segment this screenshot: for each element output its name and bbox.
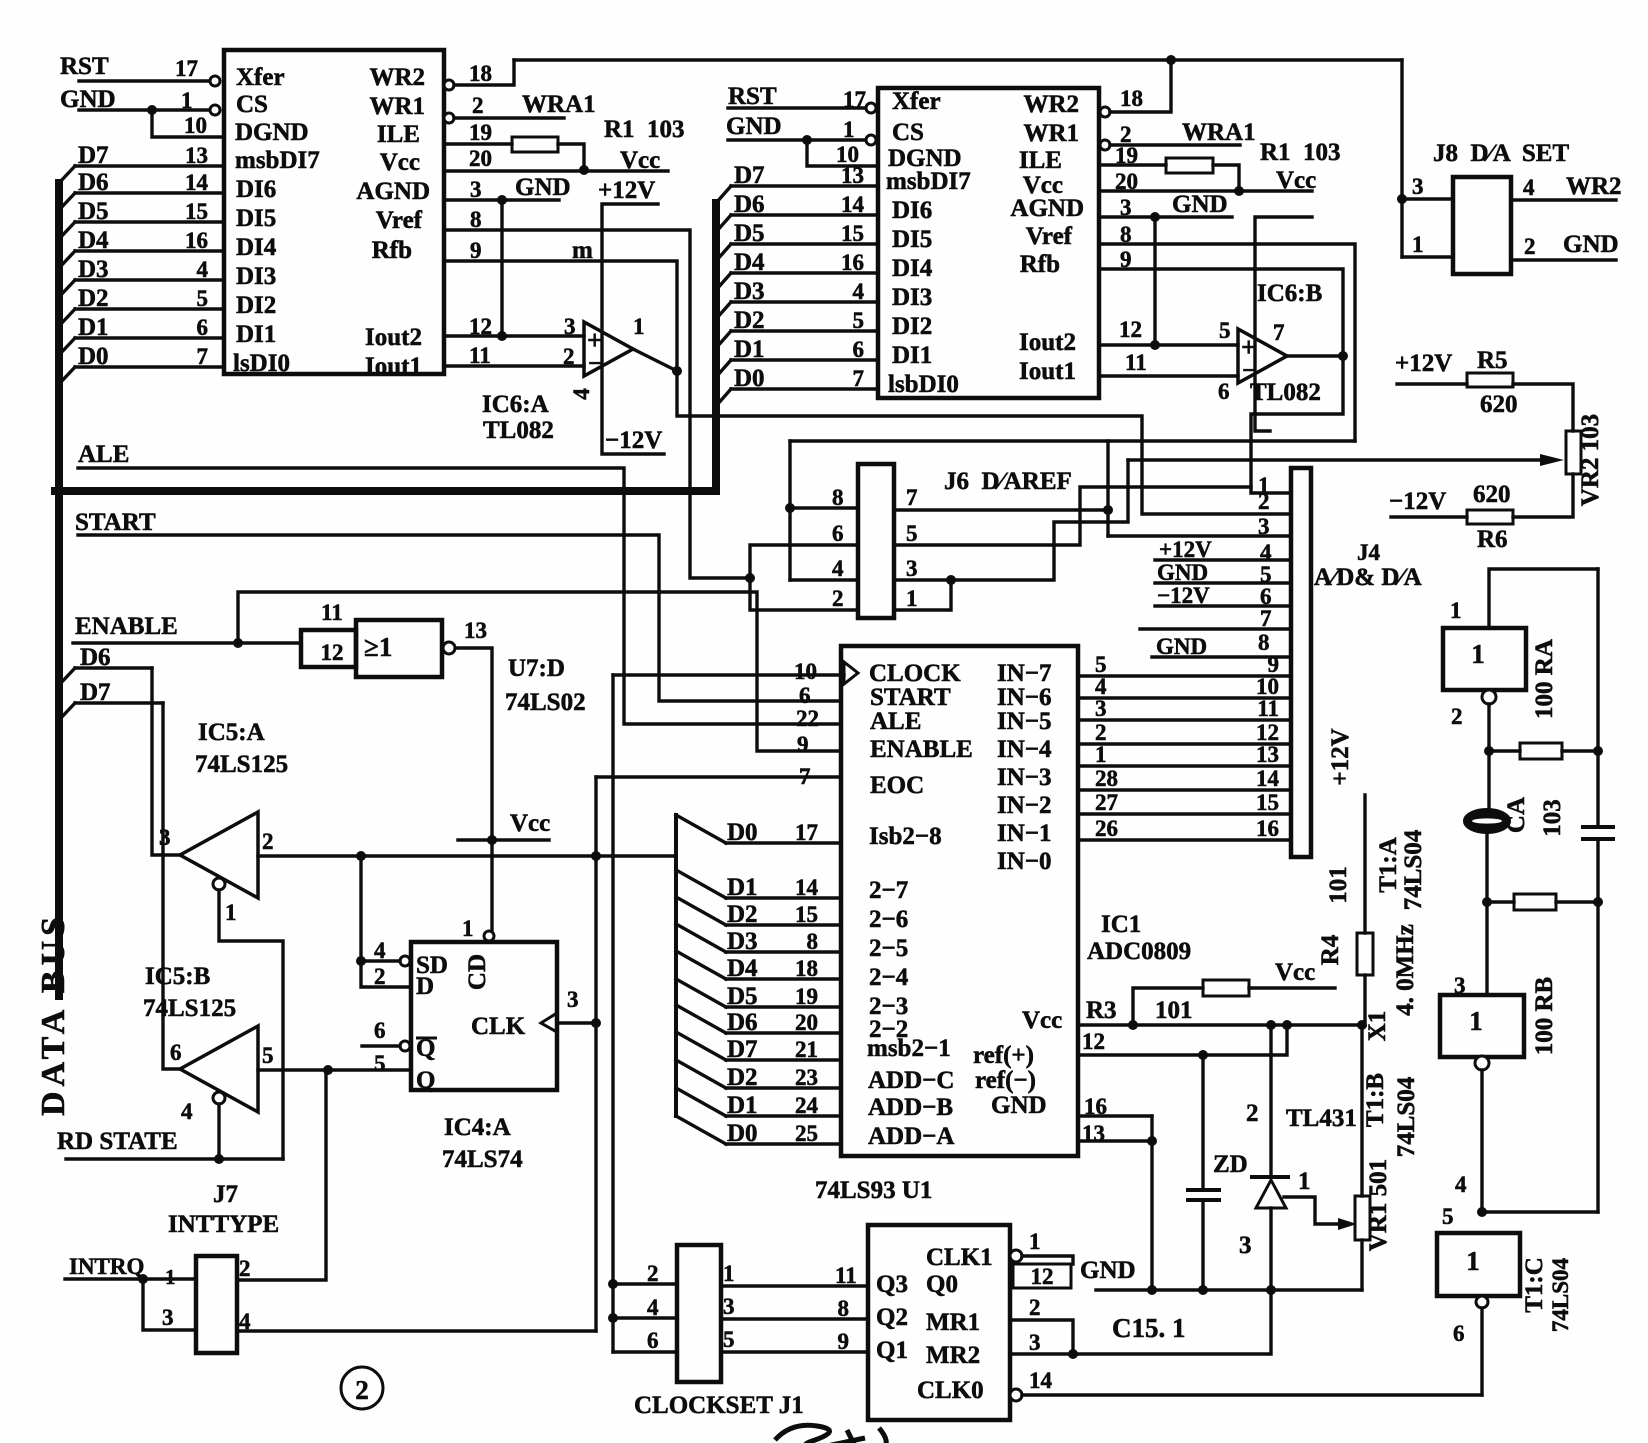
junction GND2/DGND2 <box>802 135 812 145</box>
pin circle Xfer 17 <box>210 76 220 86</box>
junction RB/rail <box>1593 897 1603 907</box>
wire TL431 anode to ground rail <box>1269 1208 1272 1290</box>
svg-text:620: 620 <box>1480 391 1518 418</box>
svg-text:7: 7 <box>799 764 811 789</box>
wire pins 16/13 down to ground rail <box>1150 1116 1153 1290</box>
wire D1 to ADC pin 14 <box>726 896 841 899</box>
svg-text:2: 2 <box>563 344 575 369</box>
EOC net vertical V1 <box>594 777 597 1331</box>
svg-text:ADD−C: ADD−C <box>868 1067 954 1094</box>
svg-text:X1: X1 <box>1364 1011 1391 1042</box>
wire J1 pin 2 to clock net <box>613 1282 677 1285</box>
wire D1 to DAC1 pin 6 <box>75 336 224 339</box>
wire bottom feedback to rail <box>1482 1210 1598 1213</box>
svg-text:12: 12 <box>1119 317 1142 342</box>
bubble U1 CLK0 pin 14 <box>1010 1389 1022 1401</box>
junction EOC/IC5A input <box>591 851 601 861</box>
svg-text:IN−5: IN−5 <box>997 708 1052 735</box>
wire D3 to DAC1 pin 4 <box>75 278 224 281</box>
wire IC6:B output <box>1287 354 1343 357</box>
svg-text:6: 6 <box>374 1018 386 1043</box>
svg-text:14: 14 <box>841 192 865 217</box>
wire D5 to ADC pin 19 <box>726 1005 841 1008</box>
svg-text:msb2−1: msb2−1 <box>867 1035 951 1062</box>
wire ILE pin 19 to resistor R1 <box>444 142 512 145</box>
svg-text:CLK1: CLK1 <box>926 1244 993 1271</box>
svg-text:T1:A: T1:A <box>1375 837 1402 893</box>
bus stub diagonal D3 (ADC) <box>676 924 726 952</box>
wire ADC GND pin 16 <box>1078 1114 1152 1117</box>
junction R3/Vcc rail <box>1128 1020 1138 1030</box>
wire Vcc pin 20 DAC2 <box>1099 189 1312 192</box>
svg-text:2: 2 <box>647 1261 659 1286</box>
bus stub diagonal D1 (DAC2) <box>716 360 731 377</box>
svg-text:8: 8 <box>470 207 482 232</box>
wire D pin 2 tie <box>361 961 411 987</box>
svg-text:2: 2 <box>239 1256 251 1281</box>
wire J1 pin 4 to clock net <box>613 1316 677 1319</box>
svg-text:GND: GND <box>515 174 571 201</box>
junction RB tap <box>1482 897 1492 907</box>
svg-text:D2: D2 <box>727 1064 758 1091</box>
svg-text:DI4: DI4 <box>236 234 277 261</box>
bubble IC5:A enable pin 1 <box>213 878 225 890</box>
svg-text:CD: CD <box>464 954 491 990</box>
svg-text:4: 4 <box>181 1099 193 1124</box>
svg-text:15: 15 <box>795 902 818 927</box>
wire J6 pin 3 <box>894 578 951 581</box>
bus stub diagonal D7 (ADC) <box>676 1032 726 1060</box>
svg-text:1: 1 <box>225 900 237 925</box>
wire D7 to DAC1 pin 13 <box>75 164 224 167</box>
svg-text:24: 24 <box>795 1093 819 1118</box>
junction SD/D tie <box>356 956 366 966</box>
wire ZD to ground rail <box>1201 1200 1204 1290</box>
junction top rail DAC2 <box>1166 55 1176 65</box>
svg-text:DI3: DI3 <box>892 284 932 311</box>
svg-text:4: 4 <box>832 556 844 581</box>
wire RST2 to Xfer pin 17 <box>728 106 864 109</box>
svg-text:12: 12 <box>1082 1029 1105 1054</box>
inverter T1:A body <box>1443 628 1526 690</box>
svg-text:5: 5 <box>1442 1204 1454 1229</box>
wire ILE pin 19 DAC2 to resistor R1 <box>1099 163 1166 166</box>
bus stub diagonal D2 (DAC1) <box>59 309 75 326</box>
junction TL431/Vcc rail <box>1266 1020 1276 1030</box>
svg-text:DI2: DI2 <box>892 313 932 340</box>
wire D2 to ADC pin 15 <box>726 923 841 926</box>
bubble T1:A output pin 2 <box>1482 690 1496 704</box>
svg-text:19: 19 <box>795 984 818 1009</box>
wire J6 pin 6 / pin 2 tie (from DAC1 Vref) <box>750 545 858 610</box>
svg-text:9: 9 <box>838 1329 850 1354</box>
svg-text:D1: D1 <box>734 336 765 363</box>
svg-text:74LS04: 74LS04 <box>1400 829 1427 910</box>
crystal CA body <box>1464 809 1510 833</box>
svg-text:17: 17 <box>175 56 198 81</box>
wire ADC EOC pin 7 to V1 <box>596 775 841 778</box>
svg-text:D5: D5 <box>727 983 758 1010</box>
svg-text:10: 10 <box>184 113 207 138</box>
wire SD pin 4 <box>361 959 400 962</box>
svg-text:103: 103 <box>1539 799 1566 837</box>
svg-text:Vcc: Vcc <box>1022 1007 1062 1034</box>
svg-text:WRA1: WRA1 <box>1182 119 1256 146</box>
VR1 wiper arrow <box>1338 1218 1357 1230</box>
svg-text:Iout2: Iout2 <box>365 324 422 351</box>
svg-text:4: 4 <box>374 938 386 963</box>
wire ENABLE up-and-over to ADC pin 9 <box>238 592 841 751</box>
resistor RB 100 <box>1514 894 1556 910</box>
buffer IC5:A triangle <box>180 812 258 898</box>
svg-text:1: 1 <box>906 586 918 611</box>
bus stub diagonal D5 (ADC) <box>676 979 726 1007</box>
svg-text:D5: D5 <box>78 198 109 225</box>
svg-text:RD STATE: RD STATE <box>57 1128 178 1155</box>
svg-text:4: 4 <box>647 1295 659 1320</box>
svg-text:ENABLE: ENABLE <box>75 613 178 640</box>
svg-text:8: 8 <box>1120 222 1132 247</box>
svg-text:2−5: 2−5 <box>869 935 908 962</box>
svg-text:IN−4: IN−4 <box>997 736 1052 763</box>
capacitor ZD top plate <box>1188 1188 1219 1192</box>
feedback rail right <box>1596 569 1599 827</box>
svg-text:ILE: ILE <box>1019 147 1062 174</box>
zener TL431 triangle <box>1256 1180 1286 1208</box>
svg-text:CLOCKSET J1: CLOCKSET J1 <box>634 1392 804 1419</box>
capacitor in rail top plate <box>1583 825 1613 829</box>
svg-text:3: 3 <box>723 1294 735 1319</box>
wire J1 pin 6 to clock net <box>613 1350 677 1353</box>
wire U7:D output to IC4 CD pin 1 <box>456 648 492 930</box>
svg-text:A∕D& D∕A: A∕D& D∕A <box>1314 564 1422 591</box>
svg-text:3: 3 <box>1029 1330 1041 1355</box>
wire IC5:A input pin 2 line <box>258 854 676 857</box>
junction RD STATE <box>214 1154 224 1164</box>
svg-text:9: 9 <box>470 238 482 263</box>
wire RST to Xfer pin 17 <box>79 79 208 82</box>
bus stub diagonal D7 (buffer) <box>59 703 75 720</box>
svg-text:R1 103: R1 103 <box>604 116 685 143</box>
svg-text:DI5: DI5 <box>892 226 932 253</box>
svg-text:1: 1 <box>1029 1229 1041 1254</box>
wire AGND pin 3 / GND label <box>444 198 559 201</box>
svg-text:2−7: 2−7 <box>869 877 908 904</box>
svg-text:3: 3 <box>1120 195 1132 220</box>
bus stub diagonal D6 (DAC2) <box>716 215 731 232</box>
svg-text:≥1: ≥1 <box>364 632 392 662</box>
wire Vref pin 8 DAC2 to J6 ref rail <box>1099 244 1355 441</box>
svg-text:D3: D3 <box>78 256 109 283</box>
svg-text:1: 1 <box>165 1265 176 1289</box>
wire +12V to R5 <box>1397 382 1467 385</box>
svg-text:WR1: WR1 <box>1023 120 1079 147</box>
svg-text:1: 1 <box>1095 742 1107 767</box>
inverter T1:C body <box>1437 1233 1520 1296</box>
svg-text:MR2: MR2 <box>926 1342 980 1369</box>
wire ZD to ref+ line <box>1201 1055 1204 1190</box>
svg-text:Rfb: Rfb <box>1020 251 1060 278</box>
svg-text:1: 1 <box>1298 1168 1311 1195</box>
svg-text:4: 4 <box>1523 175 1535 200</box>
wire R5 to VR2 top <box>1513 384 1573 431</box>
svg-text:74LS02: 74LS02 <box>505 689 586 716</box>
junction J6 pin 8 <box>785 503 795 513</box>
svg-text:D3: D3 <box>734 278 765 305</box>
svg-text:msbDI7: msbDI7 <box>886 168 971 195</box>
wire AGND down to Iout2 <box>500 200 503 336</box>
svg-text:3: 3 <box>567 987 579 1012</box>
junction IC6:A output <box>672 366 682 376</box>
pin circle CS 1 <box>210 105 220 115</box>
bus stub diagonal D0 (ADC) <box>676 1116 726 1144</box>
svg-text:D4: D4 <box>734 249 765 276</box>
junction RA tap <box>1484 746 1494 756</box>
op-amp IC6:B triangle <box>1238 329 1287 383</box>
svg-text:−12V: −12V <box>1157 583 1210 608</box>
svg-text:GND: GND <box>726 113 782 140</box>
svg-text:74LS74: 74LS74 <box>442 1146 523 1173</box>
svg-text:25: 25 <box>795 1121 818 1146</box>
wire T1:B output down to rail <box>1480 1070 1483 1212</box>
svg-text:Rfb: Rfb <box>372 237 412 264</box>
svg-text:18: 18 <box>1120 86 1143 111</box>
svg-text:GND: GND <box>1563 231 1619 258</box>
svg-text:DI1: DI1 <box>236 321 276 348</box>
svg-text:6: 6 <box>170 1040 182 1065</box>
resistor R6 <box>1467 510 1513 524</box>
junction IC6:B output <box>1338 351 1348 361</box>
wire D5 to DAC2 pin 15 <box>731 242 878 245</box>
wire R1 DAC2 to Vcc net <box>1213 165 1239 191</box>
svg-text:DI6: DI6 <box>236 176 276 203</box>
svg-text:11: 11 <box>321 600 343 625</box>
svg-text:8: 8 <box>807 929 819 954</box>
wire J8 pin 4 WR2 <box>1511 198 1616 201</box>
svg-text:18: 18 <box>469 61 492 86</box>
svg-text:J8 D∕A SET: J8 D∕A SET <box>1433 140 1569 167</box>
svg-text:13: 13 <box>185 143 208 168</box>
svg-text:IN−0: IN−0 <box>997 848 1052 875</box>
svg-text:13: 13 <box>1082 1121 1105 1146</box>
svg-text:3: 3 <box>564 314 576 339</box>
svg-text:11: 11 <box>469 343 491 368</box>
junction J8 pin 3 <box>1397 194 1407 204</box>
IC1 ADC0809 chip body <box>841 646 1078 1156</box>
svg-text:CLK0: CLK0 <box>917 1377 984 1404</box>
wire ENABLE label stub <box>73 641 301 644</box>
svg-text:IN−3: IN−3 <box>997 764 1052 791</box>
svg-text:1: 1 <box>1258 473 1270 498</box>
svg-text:4: 4 <box>569 388 594 400</box>
svg-text:5: 5 <box>262 1043 274 1068</box>
wire INTRQ1 to J7 <box>65 1277 196 1280</box>
pin circle CS 1 DAC2 <box>866 135 876 145</box>
svg-text:D0: D0 <box>727 1120 758 1147</box>
svg-text:+12V: +12V <box>598 177 655 204</box>
svg-text:16: 16 <box>185 228 208 253</box>
svg-text:6: 6 <box>1453 1321 1465 1346</box>
svg-text:CLK: CLK <box>471 1013 526 1040</box>
svg-text:T1:C: T1:C <box>1521 1257 1548 1313</box>
junction Vref J6 feed <box>745 573 755 583</box>
wire VR2 bottom to R6 <box>1513 474 1573 517</box>
capacitor ZD bottom plate <box>1188 1198 1219 1202</box>
zener TL431 cathode bar <box>1252 1175 1288 1179</box>
svg-text:6: 6 <box>647 1328 659 1353</box>
wire ADC IN pin 4 to J4 pin 10 <box>1078 696 1291 699</box>
svg-text:101: 101 <box>1155 997 1193 1024</box>
thick bus horizontal link <box>55 487 716 495</box>
svg-text:GND: GND <box>991 1092 1047 1119</box>
svg-text:1: 1 <box>1450 598 1462 623</box>
svg-text:DGND: DGND <box>235 119 309 146</box>
bus stub diagonal D2 (DAC2) <box>716 331 731 348</box>
svg-text:19: 19 <box>1115 143 1138 168</box>
svg-text:+12V: +12V <box>1159 537 1212 562</box>
wire ref rail drop to J6 pin 8 and 4 <box>788 441 791 580</box>
IC4:A chip body <box>411 942 557 1090</box>
wire J6 pin 4 <box>790 578 858 581</box>
svg-text:J6 D∕AREF: J6 D∕AREF <box>944 468 1072 495</box>
bus stub diagonal D0 (ADC) <box>676 815 726 843</box>
wire CLK0 pin 14 to T1:C output <box>1022 1393 1482 1396</box>
wire J4 pin 7 stub <box>1140 627 1291 630</box>
bus stub diagonal D7 (DAC2) <box>716 186 731 203</box>
resistor RA 100 <box>1520 743 1562 759</box>
junction ENABLE <box>233 638 243 648</box>
svg-text:VR1 501: VR1 501 <box>1365 1159 1392 1251</box>
svg-text:2: 2 <box>262 829 274 854</box>
IC6:B supply stub <box>1255 217 1312 431</box>
svg-text:Q1: Q1 <box>876 1337 908 1364</box>
svg-text:START: START <box>870 684 951 711</box>
connector J4 bar <box>1291 468 1311 857</box>
svg-text:7: 7 <box>906 485 918 510</box>
svg-text:1: 1 <box>462 916 474 941</box>
wire ADC CLOCK pin 10 to clock net V2 <box>613 673 844 676</box>
bubble IC4 CD pin 1 <box>484 931 494 941</box>
wire D5 to DAC1 pin 15 <box>75 220 224 223</box>
svg-text:19: 19 <box>469 120 492 145</box>
bubble IC5:B enable pin 4 <box>213 1092 225 1104</box>
svg-text:D4: D4 <box>78 227 109 254</box>
junction AGND/Iout2 <box>497 331 507 341</box>
svg-text:D2: D2 <box>727 901 758 928</box>
junction R1/Vcc DAC2 <box>1234 186 1244 196</box>
svg-text:GND: GND <box>1080 1257 1136 1284</box>
wire Qbar pin 6 stub <box>362 1044 400 1047</box>
ADC data bus mini-bar <box>674 815 678 1116</box>
svg-text:D: D <box>416 973 434 1000</box>
junction INTRQ1 <box>138 1274 148 1284</box>
svg-text:lsDI0: lsDI0 <box>233 350 290 377</box>
svg-text:1: 1 <box>843 117 855 142</box>
svg-text:DI1: DI1 <box>892 342 932 369</box>
handwritten mark <box>775 1425 886 1443</box>
svg-text:13: 13 <box>1256 742 1279 767</box>
svg-text:J4: J4 <box>1357 540 1381 565</box>
svg-text:1: 1 <box>723 1261 735 1286</box>
svg-text:74LS04: 74LS04 <box>1548 1257 1573 1332</box>
bubble IC4 SD pin 4 <box>400 956 410 966</box>
svg-text:IN−7: IN−7 <box>997 660 1052 687</box>
svg-text:TL082: TL082 <box>1250 379 1321 406</box>
svg-text:INTTYPE: INTTYPE <box>168 1211 279 1238</box>
svg-text:lsbDI0: lsbDI0 <box>888 371 959 398</box>
junction AGND/Iout2 DAC2 <box>1150 340 1160 350</box>
svg-text:10: 10 <box>794 659 817 684</box>
wire ADC IN pin 1 to J4 pin 13 <box>1078 764 1291 767</box>
U1 pin 12 box <box>1013 1264 1071 1288</box>
svg-text:1: 1 <box>1471 639 1485 669</box>
bus stub diagonal D3 (DAC1) <box>59 280 75 297</box>
wire T1:A output down <box>1487 704 1490 809</box>
svg-text:+12V: +12V <box>1395 350 1452 377</box>
junction T1:B out / rail wire <box>1477 1207 1487 1217</box>
VR2 wiper arrow <box>1540 454 1564 466</box>
svg-text:3: 3 <box>159 825 171 850</box>
wire D0 to ADC pin 17 <box>726 841 841 844</box>
svg-text:2: 2 <box>1246 1100 1259 1127</box>
svg-text:TL082: TL082 <box>483 417 554 444</box>
wire ADC pin 13 <box>1078 1139 1152 1142</box>
junction on IC5A input line <box>356 851 366 861</box>
bus stub diagonal D2 (ADC) <box>676 1060 726 1088</box>
svg-text:Iout1: Iout1 <box>1019 358 1076 385</box>
svg-text:3: 3 <box>162 1305 174 1330</box>
svg-text:ALE: ALE <box>870 708 921 735</box>
svg-text:D1: D1 <box>727 874 758 901</box>
wire Vref pin 8 (DAC1) to J6 <box>444 230 750 578</box>
wire J4 pin 4 <box>1155 558 1291 561</box>
wire ADC Vcc rail <box>1078 1023 1365 1026</box>
svg-text:7: 7 <box>1273 320 1285 345</box>
wire top rail down to J8 pin 3 <box>1400 60 1403 257</box>
svg-text:15: 15 <box>1256 790 1279 815</box>
svg-text:15: 15 <box>841 221 864 246</box>
wire D/A REF rail (Vref2 to J6) <box>790 439 1355 442</box>
svg-text:2: 2 <box>472 93 484 118</box>
svg-text:GND: GND <box>1156 634 1207 659</box>
wire Iout2 pin 12 DAC2 to op-amp + input <box>1099 343 1238 346</box>
wire VR2 wiper line from J6 network <box>1128 458 1540 461</box>
svg-text:Isb2−8: Isb2−8 <box>869 823 942 850</box>
svg-text:J7: J7 <box>213 1181 238 1208</box>
data bus bar (DAC2) <box>712 203 720 491</box>
svg-text:2−6: 2−6 <box>869 906 908 933</box>
svg-text:5: 5 <box>723 1327 735 1352</box>
svg-text:Q3: Q3 <box>876 1271 908 1298</box>
wire J6 pin 5 <box>894 487 1251 545</box>
bus stub diagonal D5 (DAC1) <box>59 222 75 239</box>
bus stub diagonal D1 (DAC1) <box>59 338 75 355</box>
wire D6 to ADC pin 20 <box>726 1031 841 1034</box>
wire U1 Q1 pin 9 to J1 pin 5 <box>721 1350 868 1353</box>
wire CA to RB tap <box>1485 833 1488 995</box>
svg-text:msbDI7: msbDI7 <box>235 147 320 174</box>
svg-text:IC6:A: IC6:A <box>482 391 549 418</box>
svg-text:22: 22 <box>796 706 819 731</box>
svg-text:5: 5 <box>853 308 865 333</box>
wire IC5:A enable to RD STATE <box>219 890 283 1159</box>
svg-text:WR2: WR2 <box>1023 91 1079 118</box>
svg-text:16: 16 <box>841 250 864 275</box>
wire R3 right lead to Vcc <box>1249 986 1335 989</box>
wire ADC ref+ pin 12 <box>1078 1025 1287 1055</box>
wire J7 pin 2 to IC5:B net <box>237 1070 326 1280</box>
bus stub diagonal D5 (DAC2) <box>716 244 731 261</box>
